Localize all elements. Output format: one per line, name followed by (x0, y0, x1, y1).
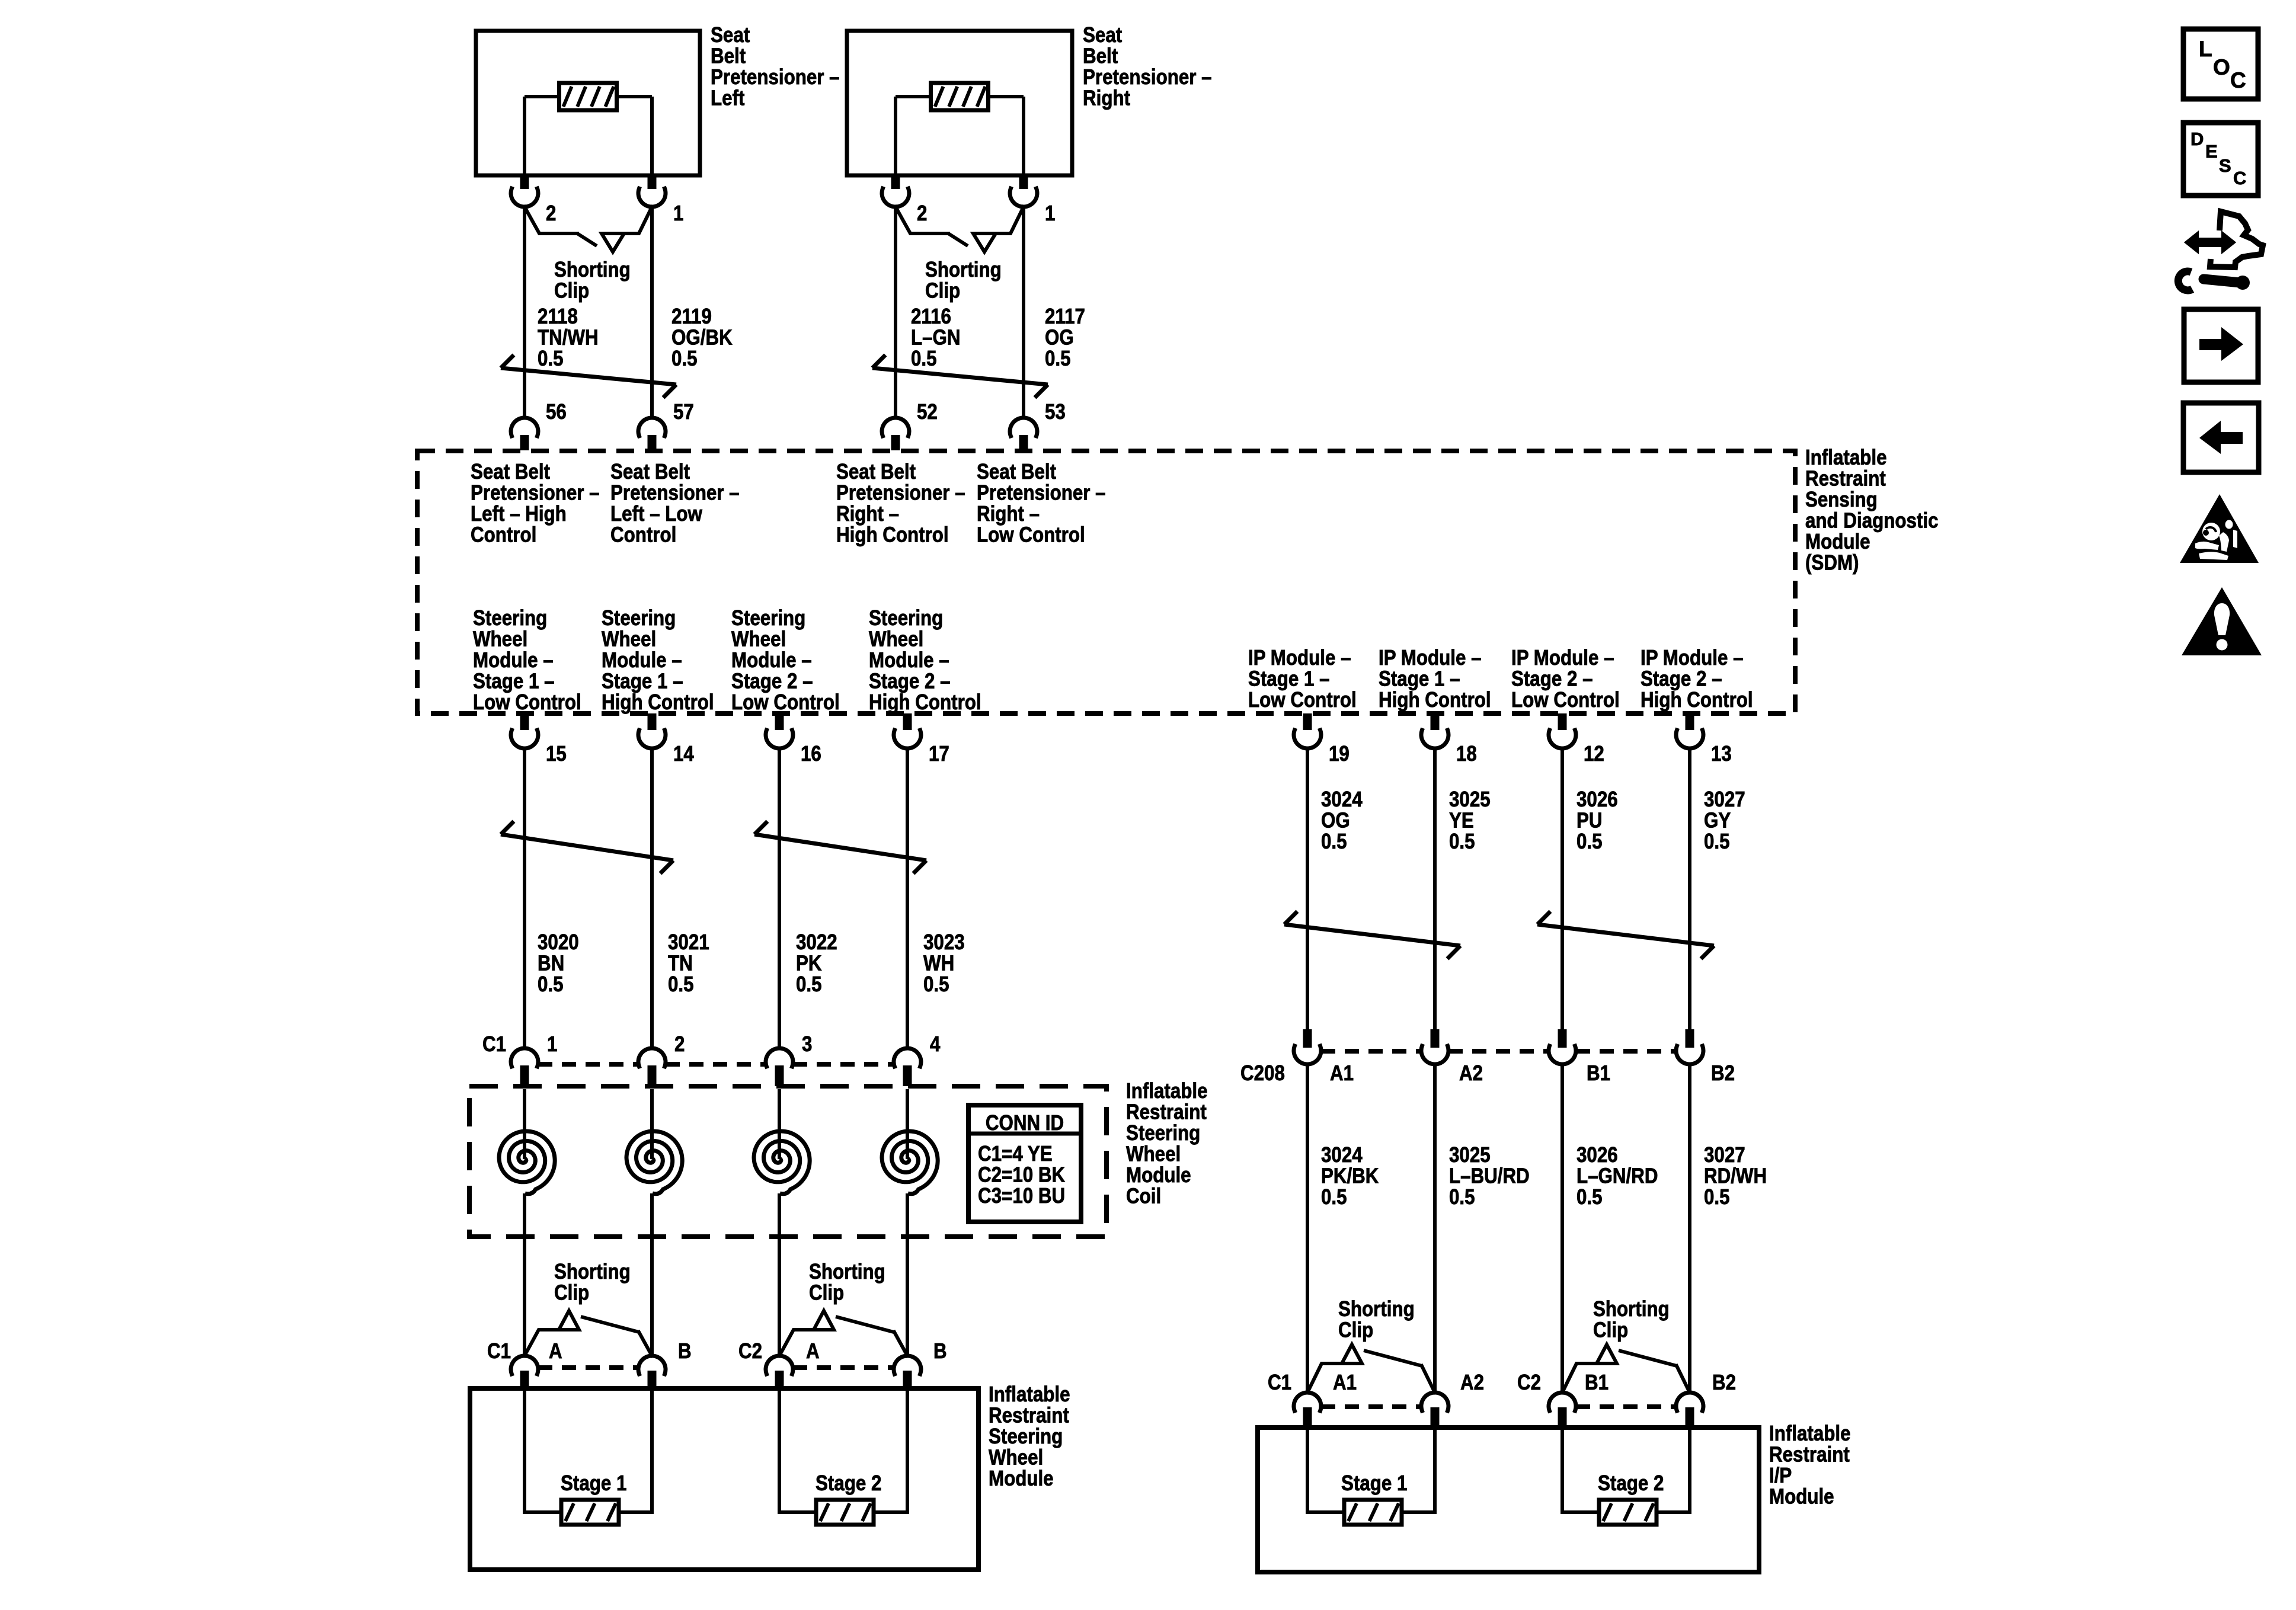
icon diagnostic wrench (2178, 212, 2263, 290)
inflatable restraint steering wheel module coil dashed box (469, 1086, 1107, 1237)
pin label 17 (929, 741, 949, 766)
svg-text:0.5: 0.5 (1321, 1185, 1347, 1209)
stage 1 squib (steering wheel module) (525, 1388, 652, 1525)
label SDM seat belt pretensioner right high control (836, 459, 965, 547)
svg-text:3: 3 (802, 1032, 812, 1056)
pin label 16 (801, 741, 821, 766)
wire label 3026 PU 0.5 (1576, 787, 1618, 853)
icon warning triangle (2182, 587, 2262, 655)
crossing break mark (left pretensioner wires) (501, 355, 676, 398)
SDM pin 56 connector (511, 418, 538, 450)
pin label 1 (coil connector) (547, 1032, 557, 1056)
label shorting clip (steering wheel module C2) (809, 1259, 885, 1305)
wire 2116 L-GN (894, 207, 897, 419)
svg-text:High Control: High Control (602, 690, 714, 714)
label SDM title (1805, 445, 1939, 575)
steering wheel module connector B at x=1100 (638, 1356, 666, 1388)
shorting clip symbol (steering wheel module C1) (525, 1311, 652, 1356)
svg-text:Low Control: Low Control (1511, 687, 1620, 712)
pin label B (steering wheel module) (678, 1339, 692, 1363)
svg-text:B: B (678, 1339, 692, 1363)
svg-text:Stage 2: Stage 2 (816, 1471, 881, 1495)
svg-text:Low Control: Low Control (473, 690, 581, 714)
svg-text:C2: C2 (738, 1339, 762, 1363)
svg-text:0.5: 0.5 (1449, 829, 1475, 853)
steering wheel module connector A at x=1315 (766, 1356, 793, 1388)
shorting clip symbol (steering wheel module C2) (779, 1311, 907, 1356)
SDM pin 15 connector (511, 713, 538, 748)
svg-text:56: 56 (546, 399, 567, 424)
wire IP circuit upper at x=2636 (1560, 748, 1564, 1029)
pin 2 connector of pretensioner right (882, 175, 909, 207)
svg-text:Clip: Clip (1593, 1317, 1628, 1342)
svg-text:57: 57 (673, 399, 694, 424)
svg-text:Control: Control (610, 522, 676, 546)
label stage 2 (steering wheel module) (816, 1471, 881, 1495)
wire below coil spiral 2 (650, 1193, 654, 1357)
wire label 3023 WH 0.5 (923, 930, 965, 996)
svg-text:O: O (2213, 55, 2230, 79)
pin label 14 (673, 741, 694, 766)
svg-text:B2: B2 (1712, 1370, 1736, 1394)
svg-text:B: B (933, 1339, 947, 1363)
wire label 3027 RD/WH 0.5 (1704, 1142, 1767, 1209)
C208 connector pin B1 (1549, 1029, 1576, 1064)
pin 2 connector of pretensioner left (511, 175, 538, 207)
wire label 3024 PK/BK 0.5 (1321, 1142, 1379, 1209)
IP module connector B2 (1676, 1393, 1703, 1427)
svg-text:Low Control: Low Control (731, 690, 840, 714)
wire IP circuit lower at x=2206 (1306, 1064, 1309, 1393)
wire label 3020 BN 0.5 (538, 930, 579, 996)
svg-text:A2: A2 (1460, 1370, 1484, 1394)
svg-text:C1: C1 (1268, 1370, 1291, 1394)
wire 2119 OG/BK (650, 207, 654, 419)
svg-text:Clip: Clip (925, 278, 960, 302)
crossing break mark (wires 3020/3021) (501, 821, 673, 873)
inflatable restraint sensing and diagnostic module (SDM) dashed box (417, 451, 1795, 713)
svg-text:Control: Control (471, 522, 536, 546)
svg-text:0.5: 0.5 (1321, 829, 1347, 853)
dashed connector line C1 row (538, 1062, 894, 1067)
pin label 13 (1711, 741, 1732, 766)
SDM pin 53 connector (1010, 418, 1037, 450)
svg-text:0.5: 0.5 (796, 972, 822, 996)
svg-text:52: 52 (917, 399, 938, 424)
label C1 (IP module) (1268, 1370, 1291, 1394)
dashed connector line C208 row (1321, 1049, 1676, 1054)
SDM pin 14 connector (638, 713, 666, 748)
label C1 (steering wheel module) (487, 1339, 511, 1363)
svg-text:C1: C1 (482, 1032, 506, 1056)
svg-text:0.5: 0.5 (668, 972, 694, 996)
wire below coil spiral 4 (906, 1193, 909, 1357)
svg-text:A1: A1 (1330, 1061, 1354, 1085)
pin label 18 (1456, 741, 1477, 766)
stage 2 squib (steering wheel module) (779, 1388, 907, 1525)
shorting clip symbol (left pretensioner) (525, 207, 652, 252)
svg-text:B2: B2 (1711, 1061, 1735, 1085)
label seat belt pretensioner left (711, 23, 840, 110)
CONN ID table (968, 1105, 1081, 1222)
crossing break mark (wires 3024/3025) (1284, 911, 1460, 959)
pin label A1 (C208) (1330, 1061, 1354, 1085)
wire IP circuit lower at x=2421 (1433, 1064, 1437, 1393)
label shorting clip (left pretensioner) (554, 257, 631, 303)
crossing break mark (wires 3022/3023) (754, 821, 926, 873)
label SDM steering wheel module stage 2 low control (731, 606, 840, 714)
pin label B (steering wheel module) (933, 1339, 947, 1363)
wire IP circuit upper at x=2421 (1433, 748, 1437, 1029)
label IP module (1769, 1421, 1851, 1509)
SDM pin 57 connector (638, 418, 666, 450)
pin label 2 (right) (917, 201, 927, 225)
pin label 56 (546, 399, 567, 424)
pin label A2 (IP module) (1460, 1370, 1484, 1394)
label C208 (1240, 1061, 1285, 1085)
label shorting clip (IP module C1) (1338, 1297, 1415, 1342)
icon back arrow button (2183, 403, 2259, 472)
svg-text:A: A (806, 1339, 820, 1363)
svg-text:(SDM): (SDM) (1805, 550, 1859, 574)
wire label 2117 OG 0.5 (1045, 304, 1085, 370)
svg-text:13: 13 (1711, 741, 1732, 766)
svg-text:2: 2 (674, 1032, 685, 1056)
pin label 52 (917, 399, 938, 424)
label seat belt pretensioner right (1083, 23, 1212, 110)
label SDM seat belt pretensioner left low control (610, 459, 740, 547)
svg-text:0.5: 0.5 (1576, 829, 1603, 853)
svg-text:15: 15 (546, 741, 567, 766)
pin label A2 (C208) (1459, 1061, 1483, 1085)
wire IP circuit upper at x=2206 (1306, 748, 1309, 1029)
svg-text:14: 14 (673, 741, 694, 766)
wire below coil spiral 3 (778, 1193, 781, 1357)
SDM pin 12 connector (1549, 713, 1576, 748)
svg-text:S: S (2219, 155, 2231, 176)
svg-text:D: D (2191, 129, 2204, 149)
svg-text:0.5: 0.5 (538, 972, 564, 996)
label shorting clip (IP module C2) (1593, 1297, 1670, 1342)
C208 connector pin B2 (1676, 1029, 1703, 1064)
shorting clip symbol (IP module C1) (1307, 1345, 1435, 1393)
pin label B1 (C208) (1587, 1061, 1610, 1085)
svg-text:L: L (2199, 37, 2212, 61)
coil spiral 2 (626, 1089, 682, 1194)
wire below coil spiral 1 (523, 1193, 526, 1357)
SDM pin 18 connector (1421, 713, 1448, 748)
svg-text:C: C (2233, 168, 2246, 188)
svg-text:Low Control: Low Control (977, 522, 1085, 546)
svg-text:2: 2 (546, 201, 556, 225)
label SDM seat belt pretensioner right low control (977, 459, 1106, 547)
label SDM seat belt pretensioner left high control (471, 459, 600, 547)
svg-text:18: 18 (1456, 741, 1477, 766)
seat belt pretensioner right box (847, 31, 1072, 175)
SDM pin 17 connector (894, 713, 921, 748)
icon LOC button (2183, 29, 2258, 99)
svg-text:B1: B1 (1587, 1061, 1610, 1085)
shorting clip symbol (IP module C2) (1562, 1345, 1690, 1393)
pin label 1 (right) (1045, 201, 1055, 225)
wire label 2119 OG/BK 0.5 (671, 304, 733, 370)
svg-text:Stage 1: Stage 1 (561, 1471, 626, 1495)
wire label 3022 PK 0.5 (796, 930, 837, 996)
pin label 2 (left) (546, 201, 556, 225)
coil connector pin 3 (766, 1048, 793, 1086)
pin label 15 (546, 741, 567, 766)
svg-text:C208: C208 (1240, 1061, 1285, 1085)
label SDM steering wheel module stage 1 low control (473, 606, 581, 714)
pin label B2 (IP module) (1712, 1370, 1736, 1394)
svg-text:C2: C2 (1517, 1370, 1541, 1394)
SDM pin 52 connector (882, 418, 909, 450)
dashed connector line steering wheel module (538, 1365, 894, 1370)
coil connector pin 2 (638, 1048, 666, 1086)
squib element inside pretensioner left (559, 83, 617, 110)
pin label 53 (1045, 399, 1066, 424)
wire IP circuit lower at x=2636 (1560, 1064, 1564, 1393)
svg-text:High Control: High Control (836, 522, 949, 546)
label stage 2 (IP module) (1598, 1471, 1664, 1495)
svg-text:0.5: 0.5 (1576, 1185, 1603, 1209)
steering wheel module connector B at x=1531 (894, 1356, 921, 1388)
pin 1 connector of pretensioner left (638, 175, 666, 207)
svg-text:A2: A2 (1459, 1061, 1483, 1085)
wire label 3025 L-BU/RD 0.5 (1449, 1142, 1530, 1209)
svg-text:12: 12 (1584, 741, 1604, 766)
svg-text:High Control: High Control (869, 690, 981, 714)
label C2 (IP module) (1517, 1370, 1541, 1394)
svg-text:0.5: 0.5 (1704, 1185, 1730, 1209)
wire 2117 OG (1022, 207, 1025, 419)
label SDM steering wheel module stage 1 high control (602, 606, 714, 714)
label C2 (steering wheel module) (738, 1339, 762, 1363)
svg-text:C: C (2230, 68, 2246, 92)
wire steering wheel circuit at x=885 (523, 748, 526, 1048)
inflatable restraint IP module box (1258, 1427, 1759, 1572)
label stage 1 (steering wheel module) (561, 1471, 626, 1495)
SDM pin 13 connector (1676, 713, 1703, 748)
pin label B1 (IP module) (1585, 1370, 1609, 1394)
svg-text:Clip: Clip (809, 1280, 844, 1304)
inflatable restraint steering wheel module box (470, 1388, 978, 1570)
svg-text:C1: C1 (487, 1339, 511, 1363)
pin label 19 (1329, 741, 1350, 766)
dashed connector line IP module (1321, 1404, 1676, 1409)
pin label 57 (673, 399, 694, 424)
coil connector pin 1 (511, 1048, 538, 1086)
pin label 4 (coil connector) (930, 1032, 940, 1056)
wire label 2118 TN/WH 0.5 (538, 304, 599, 370)
squib element inside pretensioner right (931, 83, 989, 110)
icon forward arrow button (2184, 309, 2258, 382)
wire label 3027 GY 0.5 (1704, 787, 1745, 853)
wire inside pretensioner left (525, 97, 652, 175)
label SDM IP module stage 1 high control (1379, 645, 1491, 712)
wire inside pretensioner right (896, 97, 1024, 175)
wire IP circuit lower at x=2851 (1688, 1064, 1691, 1393)
pin label A1 (IP module) (1333, 1370, 1357, 1394)
svg-text:0.5: 0.5 (671, 346, 698, 370)
svg-text:0.5: 0.5 (1704, 829, 1730, 853)
pin label A (steering wheel module) (549, 1339, 562, 1363)
svg-text:Module: Module (1769, 1484, 1834, 1508)
pin label A (steering wheel module) (806, 1339, 820, 1363)
svg-text:2: 2 (917, 201, 927, 225)
coil connector pin 4 (894, 1048, 921, 1086)
svg-text:High Control: High Control (1379, 687, 1491, 712)
wire label 3024 OG 0.5 (1321, 787, 1363, 853)
IP module connector B1 (1549, 1393, 1576, 1427)
svg-text:B1: B1 (1585, 1370, 1609, 1394)
svg-text:0.5: 0.5 (538, 346, 564, 370)
pin label 1 (left) (673, 201, 683, 225)
svg-text:19: 19 (1329, 741, 1350, 766)
svg-text:High Control: High Control (1641, 687, 1753, 712)
crossing break mark (right pretensioner wires) (872, 355, 1048, 398)
stage 1 squib (IP module) (1307, 1427, 1435, 1525)
svg-text:1: 1 (1045, 201, 1055, 225)
svg-text:Stage 1: Stage 1 (1341, 1471, 1407, 1495)
pin label 12 (1584, 741, 1604, 766)
svg-text:0.5: 0.5 (1449, 1185, 1475, 1209)
svg-text:E: E (2205, 141, 2218, 162)
pin label 3 (coil connector) (802, 1032, 812, 1056)
svg-text:C3=10 BU: C3=10 BU (978, 1183, 1065, 1208)
crossing break mark (wires 3026/3027) (1537, 911, 1714, 959)
wire label 2116 L-GN 0.5 (911, 304, 961, 370)
label SDM IP module stage 1 low control (1248, 645, 1357, 712)
label SDM IP module stage 2 low control (1511, 645, 1620, 712)
label C1 (coil connector) (482, 1032, 506, 1056)
label shorting clip (right pretensioner) (925, 257, 1002, 303)
svg-text:Clip: Clip (1338, 1317, 1373, 1342)
svg-text:CONN ID: CONN ID (986, 1110, 1064, 1135)
wire IP circuit upper at x=2851 (1688, 748, 1691, 1029)
svg-text:0.5: 0.5 (923, 972, 949, 996)
svg-text:4: 4 (930, 1032, 940, 1056)
svg-text:Coil: Coil (1126, 1183, 1161, 1208)
seat belt pretensioner left box (476, 31, 700, 175)
svg-text:Right: Right (1083, 85, 1130, 110)
SDM pin 16 connector (766, 713, 793, 748)
shorting clip symbol (right pretensioner) (896, 207, 1024, 252)
wire 2118 TN/WH (523, 207, 526, 419)
IP module connector A1 (1294, 1393, 1321, 1427)
C208 connector pin A1 (1294, 1029, 1321, 1064)
wire steering wheel circuit at x=1100 (650, 748, 654, 1048)
coil spiral 4 (882, 1089, 938, 1194)
svg-text:Left: Left (711, 85, 744, 110)
steering wheel module connector A at x=885 (511, 1356, 538, 1388)
label coil module (1126, 1078, 1208, 1208)
IP module connector A2 (1421, 1393, 1448, 1427)
svg-text:Clip: Clip (554, 1280, 589, 1304)
label stage 1 (IP module) (1341, 1471, 1407, 1495)
svg-text:Clip: Clip (554, 278, 589, 302)
label steering wheel module (989, 1382, 1070, 1490)
svg-text:53: 53 (1045, 399, 1066, 424)
wire label 3021 TN 0.5 (668, 930, 709, 996)
svg-text:0.5: 0.5 (911, 346, 937, 370)
stage 2 squib (IP module) (1562, 1427, 1690, 1525)
svg-text:Stage 2: Stage 2 (1598, 1471, 1664, 1495)
wire steering wheel circuit at x=1531 (906, 748, 909, 1048)
svg-text:1: 1 (547, 1032, 557, 1056)
pin label B2 (C208) (1711, 1061, 1735, 1085)
svg-text:17: 17 (929, 741, 949, 766)
svg-text:1: 1 (673, 201, 683, 225)
label SDM steering wheel module stage 2 high control (869, 606, 981, 714)
SDM pin 19 connector (1294, 713, 1321, 748)
svg-text:16: 16 (801, 741, 821, 766)
label SDM IP module stage 2 high control (1641, 645, 1753, 712)
svg-text:A: A (549, 1339, 562, 1363)
coil spiral 3 (754, 1089, 810, 1194)
svg-text:A1: A1 (1333, 1370, 1357, 1394)
wire label 3026 L-GN/RD 0.5 (1576, 1142, 1658, 1209)
svg-text:0.5: 0.5 (1045, 346, 1071, 370)
icon DESC button (2183, 123, 2258, 196)
pin 1 connector of pretensioner right (1010, 175, 1037, 207)
svg-text:Module: Module (989, 1466, 1054, 1490)
wire label 3025 YE 0.5 (1449, 787, 1491, 853)
icon airbag caution triangle (2180, 494, 2259, 563)
wire steering wheel circuit at x=1315 (778, 748, 781, 1048)
coil spiral 1 (499, 1089, 555, 1194)
svg-text:Low Control: Low Control (1248, 687, 1357, 712)
pin label 2 (coil connector) (674, 1032, 685, 1056)
label shorting clip (steering wheel module C1) (554, 1259, 631, 1305)
C208 connector pin A2 (1421, 1029, 1448, 1064)
